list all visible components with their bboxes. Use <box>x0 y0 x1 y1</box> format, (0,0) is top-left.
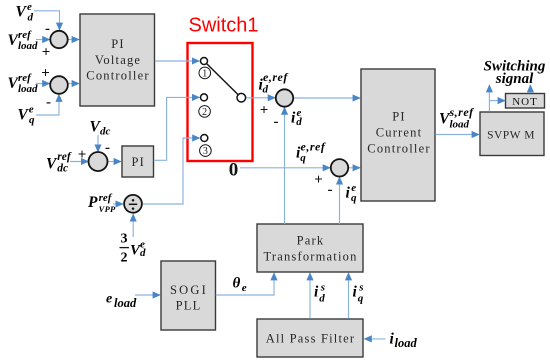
svg-text:i: i <box>353 284 358 301</box>
switch contact 3 <box>201 135 208 142</box>
svg-text:2: 2 <box>202 107 207 118</box>
svg-text:-: - <box>328 182 333 198</box>
block U7 SOGI PLL <box>161 261 216 330</box>
label iq_eref <box>296 139 326 164</box>
wire SVPWM to switching signal <box>488 85 490 112</box>
label eload <box>106 292 137 311</box>
svg-text:d: d <box>296 116 302 128</box>
wire iq_s filter to Park <box>348 273 350 319</box>
svg-text:PI: PI <box>111 37 125 51</box>
svg-text:e: e <box>242 282 247 294</box>
svg-text:s,ref: s,ref <box>449 105 475 119</box>
label Vq_e <box>18 103 36 126</box>
svg-text:+: + <box>314 172 323 188</box>
wire Vdc to S3 top <box>97 135 99 152</box>
svg-text:ref: ref <box>99 192 113 204</box>
svg-text:i: i <box>291 110 296 127</box>
svg-text:1: 1 <box>202 68 207 79</box>
wire id_s filter to Park <box>309 273 311 319</box>
svg-text:dc: dc <box>57 162 68 174</box>
block U5 NOT <box>506 94 545 109</box>
svg-text:dc: dc <box>100 126 111 138</box>
label id_eref <box>259 70 289 96</box>
svg-text:-: - <box>45 21 50 37</box>
summing junction S3 <box>89 152 108 171</box>
wire S2 to voltage controller <box>68 83 79 85</box>
svg-text:Switch1: Switch1 <box>188 15 258 37</box>
svg-text:PI: PI <box>392 110 406 124</box>
svg-text:load: load <box>114 296 137 310</box>
svg-text:s: s <box>320 281 325 293</box>
svg-text:V: V <box>16 4 28 21</box>
svg-text:d: d <box>140 247 146 259</box>
svg-text:Controller: Controller <box>367 142 430 156</box>
wire NOT to switching signal <box>529 85 531 93</box>
svg-text:d: d <box>28 11 34 23</box>
switch arm wire <box>207 64 239 95</box>
label iload <box>390 331 418 350</box>
pin number 2 <box>199 106 211 118</box>
wire voltage controller to switch contact 1 <box>155 60 199 62</box>
wire PI dc to switch contact 2 <box>154 97 200 160</box>
svg-text:q: q <box>300 152 306 164</box>
switch enclosure SW1 (red) <box>188 43 253 161</box>
wire 3/2 Vd_e to S4 bottom <box>132 214 134 237</box>
wire S3 to PI dc <box>107 161 121 163</box>
wire S6 to current controller <box>349 167 361 169</box>
svg-text:Transformation: Transformation <box>263 249 357 263</box>
block U6 Park Transformation <box>257 224 363 272</box>
svg-text:+: + <box>41 66 50 82</box>
svg-text:PI: PI <box>132 155 146 169</box>
block U2 PI (dc) <box>122 146 154 177</box>
svg-text:load: load <box>450 118 470 130</box>
svg-text:q: q <box>351 192 357 204</box>
wire Pvpp_ref to S4 left <box>113 203 123 205</box>
summing junction S6 <box>331 159 348 176</box>
svg-text:e: e <box>106 292 112 307</box>
svg-text:e,ref: e,ref <box>263 70 288 84</box>
wire id_e from Park to S5 bottom <box>284 107 286 224</box>
wire Vq_e to S2 bottom <box>36 95 59 116</box>
svg-text:-: - <box>46 94 51 110</box>
svg-text:V: V <box>46 156 58 173</box>
summing junction S1 <box>50 31 67 48</box>
svg-text:Current: Current <box>376 126 423 140</box>
label Switching signal <box>484 59 546 88</box>
wire iq_e from Park to S6 bottom <box>339 177 341 224</box>
summing junction S5 <box>276 89 293 106</box>
label 3/2 Vd_e <box>120 231 147 265</box>
label Vload_ref upper <box>8 29 39 52</box>
wire Vd_e to S1 top <box>34 11 60 30</box>
block U8 All Pass Filter <box>257 319 363 357</box>
label iq_e <box>346 182 358 204</box>
svg-text:PLL: PLL <box>176 298 202 312</box>
label id_e <box>291 107 302 128</box>
svg-text:load: load <box>395 336 418 350</box>
svg-text:load: load <box>18 83 38 95</box>
block U4 SVPWM <box>480 112 544 156</box>
label Vload_sref <box>439 105 474 130</box>
svg-text:ref: ref <box>18 72 32 84</box>
svg-text:VPP: VPP <box>99 204 116 214</box>
svg-text:i: i <box>346 185 351 202</box>
svg-text:+: + <box>42 45 51 61</box>
svg-text:load: load <box>18 40 38 52</box>
wire iload to All Pass Filter <box>364 338 385 340</box>
block U3 PI Current Controller <box>361 69 435 201</box>
wire Vload_ref to S2 left <box>36 83 50 85</box>
svg-text:s: s <box>358 281 363 293</box>
wire S1 to voltage controller <box>68 39 79 41</box>
svg-text:ref: ref <box>57 151 72 163</box>
svg-text:i: i <box>314 284 319 301</box>
label Pvpp_ref <box>88 192 116 214</box>
svg-text:0: 0 <box>229 160 239 181</box>
svg-text:All Pass Filter: All Pass Filter <box>266 332 356 346</box>
svg-text:+: + <box>260 103 269 119</box>
label Vd_e <box>16 1 34 23</box>
svg-text:ref: ref <box>18 29 32 41</box>
wire theta_e SOGI to Park <box>216 273 274 295</box>
svg-text:2: 2 <box>121 250 128 265</box>
label iq_s <box>353 281 364 304</box>
wire S5 to current controller <box>294 97 361 99</box>
svg-text:q: q <box>358 293 364 305</box>
svg-text:3: 3 <box>203 146 208 157</box>
svg-text:Controller: Controller <box>86 69 149 83</box>
pin number 1 <box>199 67 211 79</box>
pin number 3 <box>200 145 212 157</box>
svg-text:SOGI: SOGI <box>170 283 208 297</box>
svg-text:signal: signal <box>495 71 534 87</box>
svg-text:P: P <box>88 194 98 211</box>
svg-text:3: 3 <box>121 231 128 246</box>
wire Vload_ref to S1 left <box>36 39 50 41</box>
svg-text:+: + <box>78 147 87 163</box>
label Vdc_ref <box>46 151 72 175</box>
wire eload to SOGI PLL <box>135 294 160 296</box>
svg-text:d: d <box>263 83 269 95</box>
block U1 PI Voltage Controller <box>80 14 155 106</box>
label id_s <box>314 281 325 304</box>
wire Vdc_ref to S3 left <box>70 161 88 163</box>
wire S4 to switch contact 3 <box>143 138 200 204</box>
svg-text:NOT: NOT <box>512 96 538 108</box>
svg-text:V: V <box>18 106 30 123</box>
label Vdc <box>90 118 111 137</box>
svg-text:-: - <box>274 114 279 130</box>
wire node 0 to S6 <box>240 167 330 169</box>
svg-text:Park: Park <box>297 233 325 247</box>
svg-text:-: - <box>105 140 110 156</box>
label Vload_ref lower <box>8 72 39 95</box>
svg-text:θ: θ <box>233 276 241 292</box>
wire branch to NOT input <box>489 100 505 102</box>
label theta_e <box>233 276 247 295</box>
svg-text:q: q <box>29 114 35 126</box>
wire switch common to S5 <box>246 97 275 99</box>
switch contact 1 <box>201 58 208 65</box>
divider S4 <box>124 195 142 213</box>
summing junction S2 <box>50 76 68 94</box>
svg-text:d: d <box>319 293 325 305</box>
svg-text:SVPW M: SVPW M <box>487 130 535 142</box>
switch contact 2 <box>201 94 208 101</box>
switch common contact <box>237 93 246 102</box>
wire current controller to SVPWM <box>435 134 479 136</box>
svg-text:Voltage: Voltage <box>95 53 141 67</box>
